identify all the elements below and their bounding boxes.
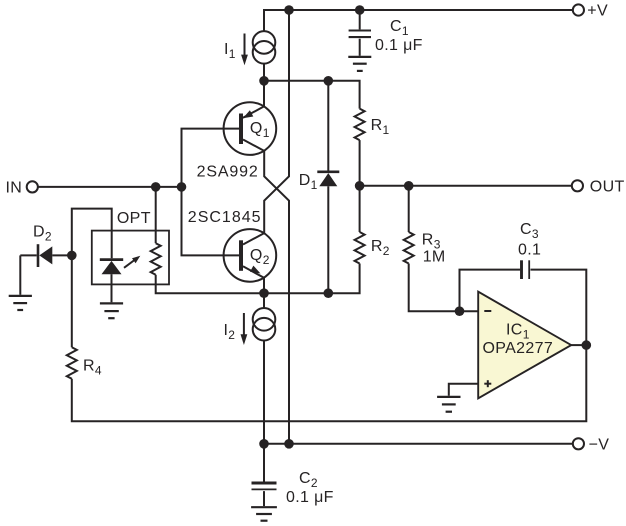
svg-text:I1: I1 xyxy=(224,41,236,61)
op-amp IC1 xyxy=(478,292,571,399)
svg-text:−V: −V xyxy=(589,436,610,453)
node junction +V / C1 xyxy=(355,5,365,15)
node junction -V / I2 xyxy=(259,439,269,449)
diode D2 xyxy=(20,254,36,256)
svg-text:C2: C2 xyxy=(299,470,318,490)
svg-text:Q2: Q2 xyxy=(250,247,270,267)
svg-text:R1: R1 xyxy=(371,117,390,137)
wire -V rail xyxy=(264,443,573,445)
node junction inverting input / feedback xyxy=(455,306,465,316)
node junction op-amp output xyxy=(582,340,592,350)
resistor R3 xyxy=(408,186,410,232)
wire I1 bottom to emitter node xyxy=(263,64,265,81)
node junction D2 / R4 / opto LED xyxy=(67,251,77,261)
svg-text:C3: C3 xyxy=(520,221,539,241)
wire non-inverting input to ground xyxy=(449,384,478,396)
svg-text:2SC1845: 2SC1845 xyxy=(188,209,262,226)
wire Q1 emitter up to node A xyxy=(263,81,265,107)
wire +V rail (I1 top corner to +V terminal) xyxy=(264,10,573,31)
ground (op-amp +) xyxy=(437,396,460,398)
wire LED anode to ground xyxy=(111,274,113,302)
ground (D2) xyxy=(9,295,32,297)
-V terminal xyxy=(573,438,584,449)
+V terminal xyxy=(573,4,584,15)
current source I2 xyxy=(253,308,276,331)
wire IN line xyxy=(38,186,182,188)
optocoupler box OPT xyxy=(92,231,169,285)
svg-text:+V: +V xyxy=(587,3,608,20)
current source I1 xyxy=(253,31,276,54)
minus input sign xyxy=(484,310,491,312)
ground (C2) xyxy=(251,506,277,508)
transistor Q1 xyxy=(224,102,277,155)
opto LED xyxy=(100,258,123,261)
arrow I2 xyxy=(243,313,245,336)
svg-text:2SA992: 2SA992 xyxy=(197,164,259,181)
wire D2 node up and over to opto LED xyxy=(72,209,112,348)
node junction -V / crossing column xyxy=(284,439,294,449)
svg-text:IN: IN xyxy=(6,180,23,197)
capacitor C1 xyxy=(359,10,361,29)
resistor R4 xyxy=(67,347,77,379)
IN terminal xyxy=(27,181,38,192)
svg-text:OUT: OUT xyxy=(590,178,625,195)
wire op-amp output to feedback node xyxy=(571,344,586,346)
svg-text:I2: I2 xyxy=(224,322,236,342)
transistor Q2 xyxy=(224,229,277,282)
opto photoresistor xyxy=(155,187,157,243)
ground (opto LED) xyxy=(100,302,123,304)
svg-text:C1: C1 xyxy=(390,18,409,38)
svg-text:1M: 1M xyxy=(423,249,446,266)
opto light arrow xyxy=(124,260,135,268)
svg-text:0.1 μF: 0.1 μF xyxy=(286,489,334,506)
resistor R1 xyxy=(355,109,365,141)
svg-text:Q1: Q1 xyxy=(250,120,270,140)
wire I2 bottom to -V rail xyxy=(263,341,265,444)
resistor R2 xyxy=(359,186,361,232)
node B (Q2 emitter / D1 / R2 / opto resistor) xyxy=(156,264,360,294)
wire OUT line xyxy=(360,185,572,187)
svg-text:D2: D2 xyxy=(33,224,52,244)
wire D2 cathode to ground xyxy=(19,255,21,294)
wire Q2 emitter to node B xyxy=(263,278,265,293)
node junction OUT / R3 xyxy=(404,181,414,191)
capacitor C2 xyxy=(263,444,265,482)
svg-text:0.1: 0.1 xyxy=(518,241,541,258)
svg-text:R4: R4 xyxy=(83,357,102,377)
node junction OUT / R2 xyxy=(355,181,365,191)
node A (I1 / Q1 emitter / D1 / R1) xyxy=(264,81,360,109)
OUT terminal xyxy=(572,180,583,191)
wire base column Q1/Q2 xyxy=(182,129,240,256)
wire R3 bottom to op-amp inverting input xyxy=(409,264,479,312)
capacitor C3 xyxy=(460,270,521,312)
wire node B to I2 xyxy=(263,293,265,308)
ground (C1) xyxy=(348,56,371,58)
svg-text:OPT: OPT xyxy=(117,210,151,227)
wire +V column / cross to Q2 collector xyxy=(264,10,289,233)
svg-text:OPA2277: OPA2277 xyxy=(483,340,554,357)
arrow I1 xyxy=(244,34,246,57)
plus input sign xyxy=(484,383,491,385)
wire R4 bottom to op-amp output xyxy=(72,345,587,421)
svg-text:R2: R2 xyxy=(371,238,390,258)
wire R1 bottom to OUT node xyxy=(359,140,361,186)
svg-text:0.1 μF: 0.1 μF xyxy=(375,37,423,54)
node junction IN / opto resistor xyxy=(151,182,161,192)
node junction +V / crossing column xyxy=(284,5,294,15)
node junction IN / base column xyxy=(177,182,187,192)
wire Q1 collector / cross to -V column xyxy=(264,151,289,444)
diode D1 xyxy=(327,81,329,171)
svg-text:D1: D1 xyxy=(299,172,318,192)
wire D1 anode to node B xyxy=(327,186,329,293)
